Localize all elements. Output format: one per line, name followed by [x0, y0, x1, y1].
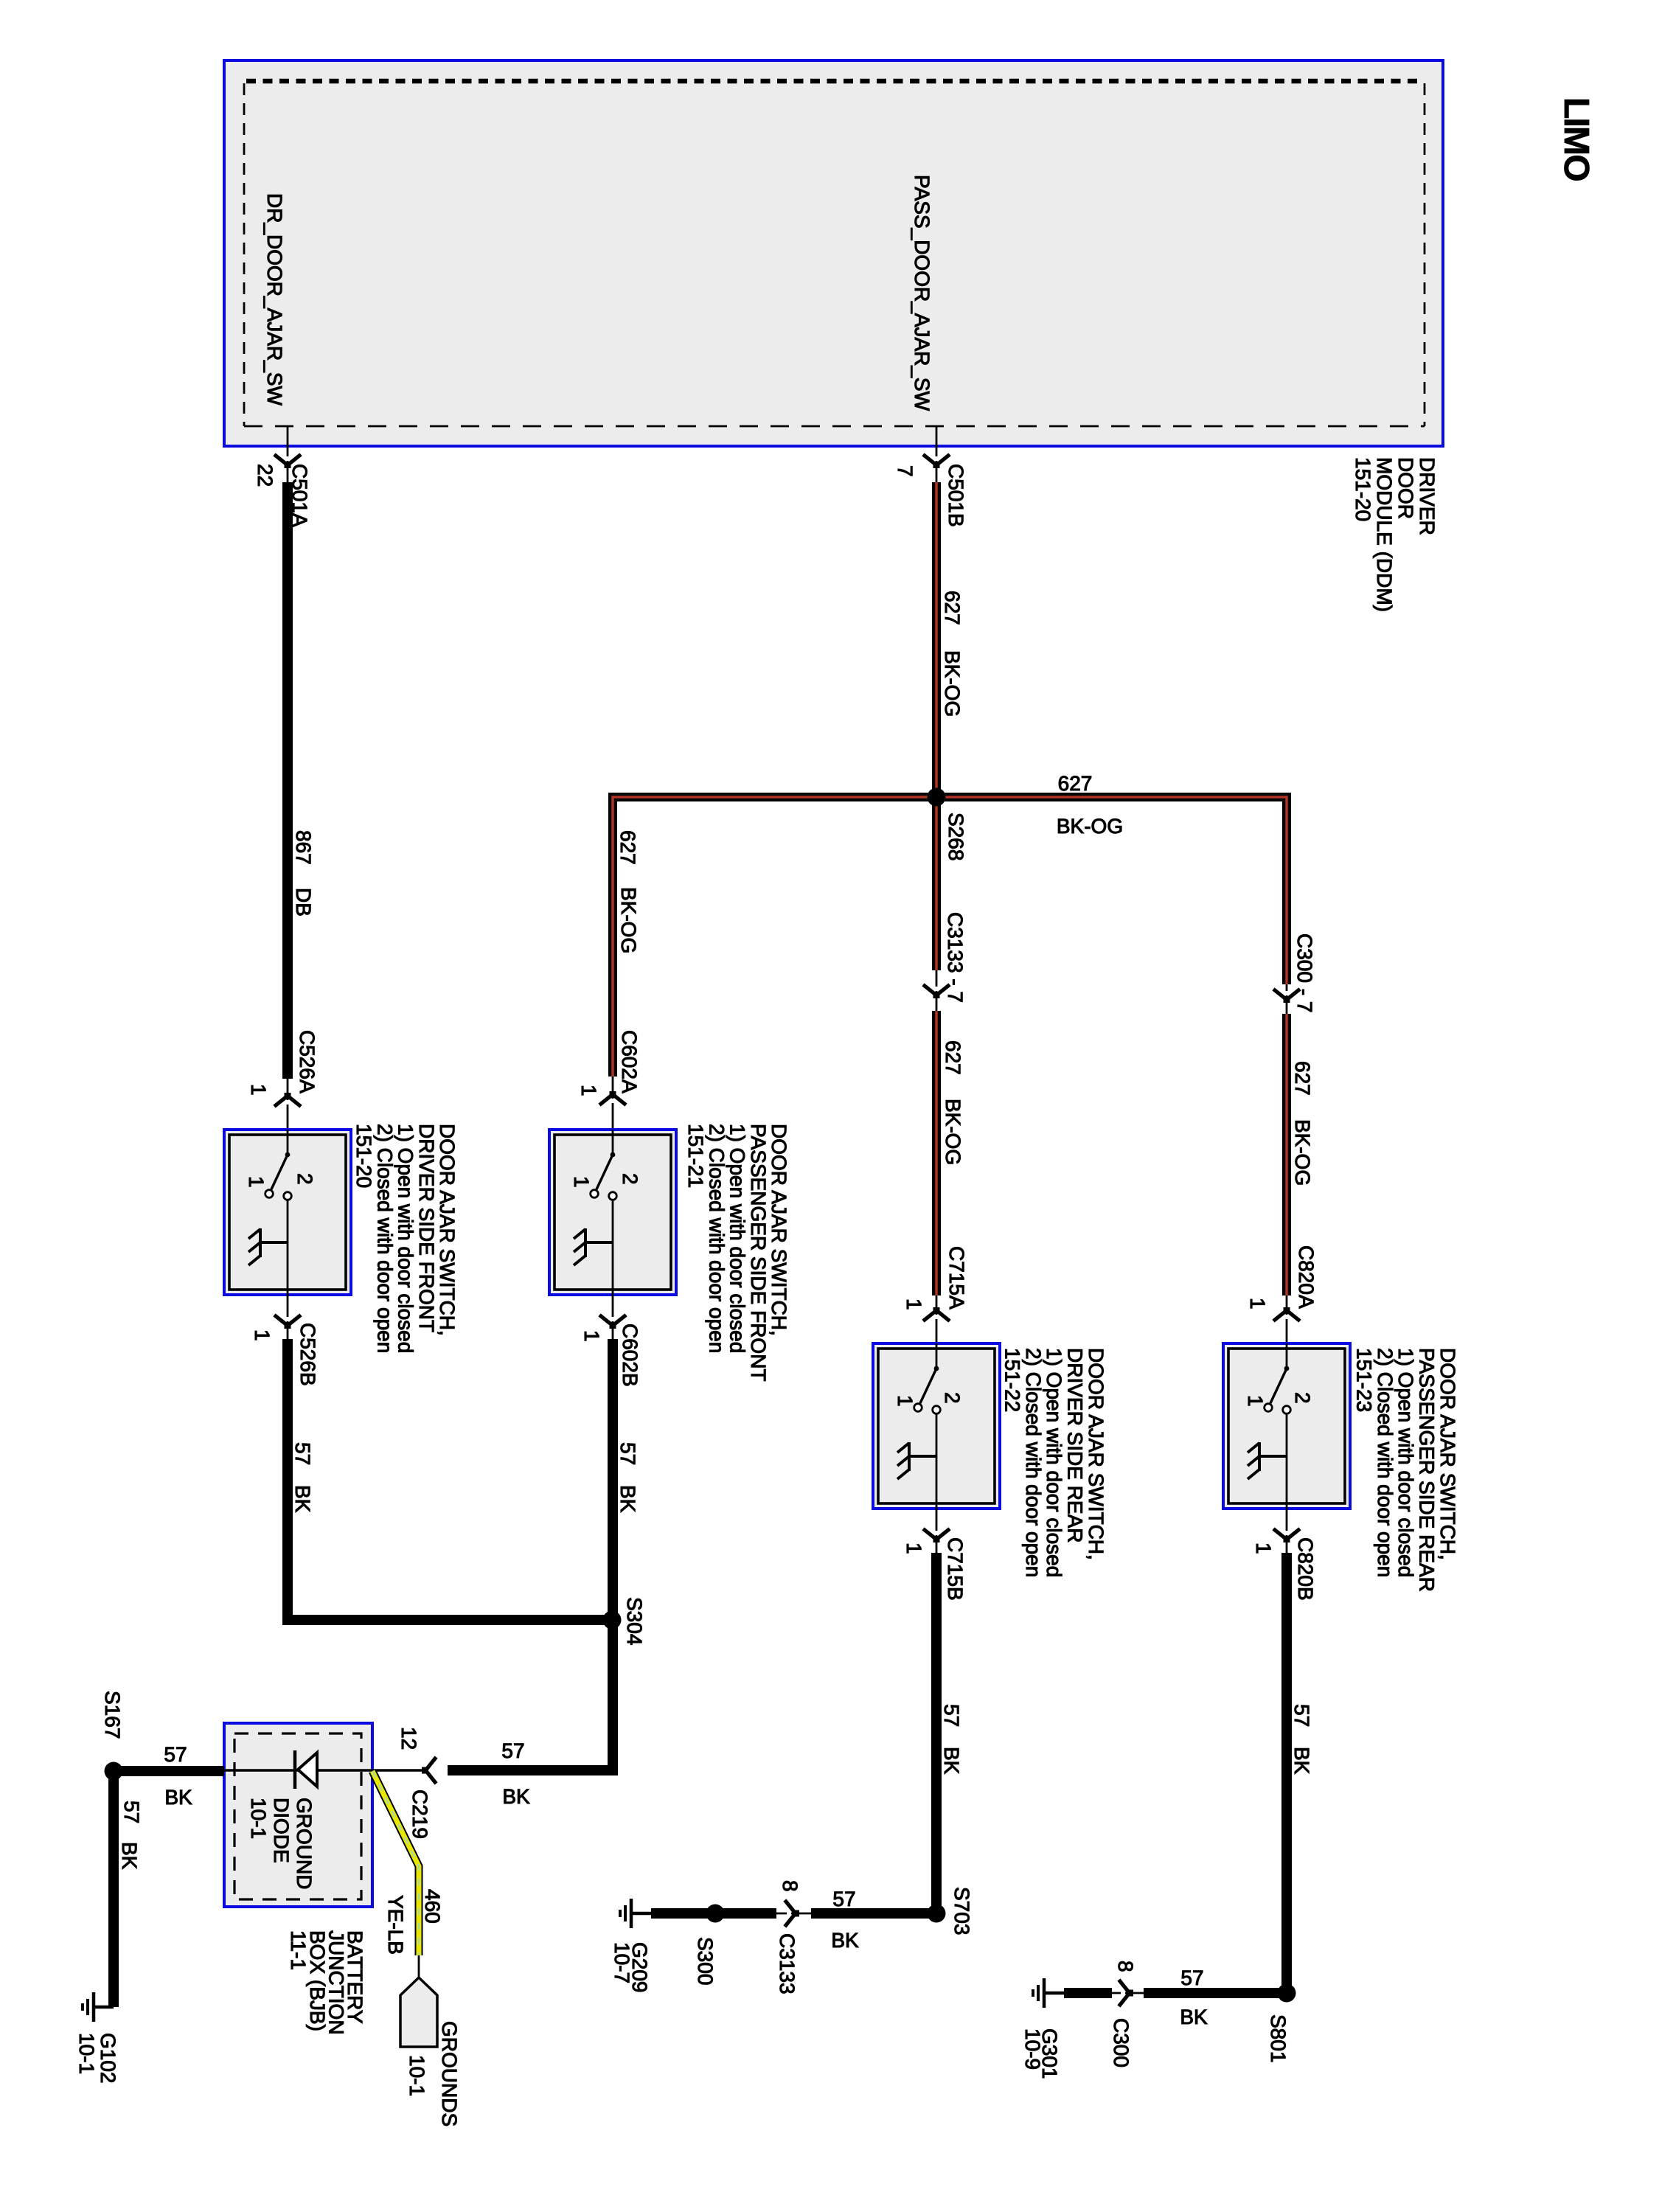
col3 lower 627 wire	[936, 970, 938, 1012]
svg-text:DOOR AJAR SWITCH,PASSENGER SID: DOOR AJAR SWITCH,PASSENGER SIDE FRONT1) …	[684, 1124, 790, 1382]
svg-text:627: 627	[942, 1040, 964, 1075]
ground diode D	[295, 1750, 317, 1789]
lead below switch 1	[287, 1295, 289, 1340]
svg-text:BK: BK	[164, 1786, 192, 1809]
wire 867 DB col1	[282, 482, 293, 1079]
switch symbol 2	[574, 1130, 616, 1295]
driver door module DDM box	[224, 60, 1443, 446]
grounds flag pentagon	[400, 1978, 437, 2047]
svg-text:2: 2	[293, 1173, 316, 1185]
svg-text:1: 1	[577, 1085, 600, 1096]
svg-text:1: 1	[1246, 1298, 1269, 1310]
svg-text:627: 627	[941, 591, 964, 625]
connector C602B	[601, 1316, 625, 1329]
connector C219	[422, 1759, 435, 1782]
svg-text:1: 1	[902, 1298, 925, 1310]
svg-text:GROUNDS: GROUNDS	[438, 2021, 461, 2126]
splice S167	[105, 1762, 123, 1781]
wire 57 BK col1 to S304	[288, 1339, 612, 1620]
switch box driver side front	[224, 1130, 351, 1295]
svg-text:BK: BK	[291, 1485, 314, 1513]
connector C501A	[276, 456, 299, 468]
svg-text:BK: BK	[1290, 1747, 1313, 1775]
svg-text:DRIVERDOORMODULE (DDM)151-20: DRIVERDOORMODULE (DDM)151-20	[1352, 457, 1439, 612]
svg-text:BK: BK	[831, 1929, 859, 1952]
svg-text:LIMO: LIMO	[1557, 97, 1596, 181]
svg-text:1: 1	[247, 1084, 270, 1096]
svg-text:S304: S304	[623, 1597, 646, 1645]
svg-text:2: 2	[619, 1173, 641, 1185]
svg-text:DB: DB	[292, 888, 315, 917]
svg-text:BK-OG: BK-OG	[1291, 1119, 1314, 1186]
connector C820A	[1275, 1307, 1298, 1320]
svg-text:S167: S167	[101, 1691, 124, 1739]
svg-text:C820A: C820A	[1295, 1245, 1318, 1309]
connector C501B	[925, 456, 948, 468]
svg-text:S703: S703	[950, 1887, 973, 1935]
svg-text:12: 12	[397, 1727, 420, 1750]
connector C602A	[601, 1091, 625, 1104]
wire 57 BK col3	[931, 1553, 942, 1913]
row: S703 to G209	[651, 1908, 776, 1919]
lead below switch 2	[612, 1295, 614, 1340]
svg-text:C219: C219	[408, 1790, 431, 1839]
svg-text:G102: G102	[97, 2033, 119, 2084]
svg-text:C602B: C602B	[619, 1324, 641, 1387]
svg-text:BK-OG: BK-OG	[941, 650, 964, 717]
svg-text:BATTERYJUNCTIONBOX (BJB)11-1: BATTERYJUNCTIONBOX (BJB)11-1	[287, 1930, 366, 2035]
svg-text:C602A: C602A	[618, 1030, 641, 1093]
svg-text:BK-OG: BK-OG	[617, 887, 640, 953]
svg-text:C300: C300	[1110, 2018, 1133, 2067]
svg-text:DOOR AJAR SWITCH,DRIVER SIDE R: DOOR AJAR SWITCH,DRIVER SIDE REAR1) Open…	[1001, 1348, 1107, 1577]
svg-text:57: 57	[120, 1801, 143, 1823]
switch symbol 4	[1248, 1343, 1290, 1509]
svg-text:57: 57	[291, 1442, 314, 1465]
svg-text:DOOR AJAR SWITCH,PASSENGER SID: DOOR AJAR SWITCH,PASSENGER SIDE REAR1) O…	[1352, 1348, 1459, 1592]
svg-text:1: 1	[1252, 1543, 1275, 1554]
wire 627 BK-OG col3 from C501B	[936, 426, 938, 484]
svg-text:8: 8	[779, 1880, 801, 1892]
svg-text:C715B: C715B	[944, 1537, 967, 1601]
splice S304	[603, 1611, 622, 1630]
svg-text:DR_DOOR_AJAR_SW: DR_DOOR_AJAR_SW	[263, 193, 286, 406]
lead to grounds flag	[418, 1955, 420, 1978]
svg-text:C820B: C820B	[1294, 1537, 1317, 1601]
splice S268	[928, 788, 946, 807]
svg-text:8: 8	[1114, 1961, 1137, 1972]
svg-text:10-1: 10-1	[75, 2033, 98, 2074]
svg-text:BK-OG: BK-OG	[942, 1099, 964, 1165]
connector C715B	[925, 1530, 948, 1543]
col4 627 wire	[1286, 984, 1288, 1016]
svg-text:BK: BK	[1180, 2006, 1208, 2028]
connector C300	[1120, 1981, 1133, 2005]
connector C715A	[925, 1307, 948, 1320]
splice S703	[928, 1905, 946, 1923]
svg-text:10-7: 10-7	[611, 1942, 633, 1983]
svg-text:BK: BK	[118, 1842, 141, 1870]
svg-text:1: 1	[1244, 1395, 1267, 1407]
switch box passenger side rear	[1223, 1343, 1350, 1509]
svg-text:C526A: C526A	[296, 1030, 319, 1093]
svg-text:57: 57	[940, 1704, 963, 1727]
svg-text:627: 627	[1291, 1061, 1314, 1096]
svg-text:22: 22	[254, 464, 276, 487]
lead to switch 2	[612, 1077, 614, 1130]
lead below switch 3	[936, 1509, 938, 1554]
svg-text:1: 1	[251, 1329, 274, 1341]
connector C526A	[276, 1093, 299, 1105]
svg-text:57: 57	[1290, 1704, 1313, 1727]
svg-text:1: 1	[245, 1176, 268, 1188]
switch box driver side rear	[873, 1343, 1000, 1509]
bus 627 horizontal with corners	[613, 797, 1287, 1077]
battery junction box BJB	[224, 1723, 372, 1907]
connector C526B	[276, 1316, 299, 1329]
svg-text:627: 627	[616, 830, 639, 865]
svg-text:BK: BK	[616, 1485, 639, 1513]
svg-text:57: 57	[1180, 1966, 1203, 1989]
ground G301	[1033, 1978, 1064, 2008]
svg-text:2: 2	[1291, 1392, 1314, 1404]
wire 57 BK S167 to BJB	[114, 1766, 224, 1776]
svg-text:DOOR AJAR SWITCH,DRIVER SIDE F: DOOR AJAR SWITCH,DRIVER SIDE FRONT1) Ope…	[352, 1124, 459, 1353]
svg-text:C300 - 7: C300 - 7	[1293, 933, 1316, 1012]
svg-text:C715A: C715A	[945, 1246, 968, 1310]
ground G102	[83, 1992, 114, 2022]
svg-text:BK: BK	[940, 1747, 963, 1775]
svg-text:460: 460	[421, 1889, 444, 1924]
diode line through BJB	[224, 1769, 428, 1771]
row: S801 to G301	[1064, 1988, 1112, 1998]
pin 22 lead	[287, 426, 289, 484]
svg-text:1: 1	[902, 1543, 925, 1554]
svg-text:2: 2	[941, 1392, 964, 1404]
ground G209	[620, 1899, 651, 1928]
svg-text:57: 57	[832, 1888, 855, 1910]
svg-text:1: 1	[894, 1395, 917, 1407]
svg-text:C3133 - 7: C3133 - 7	[944, 912, 967, 1003]
svg-text:57: 57	[616, 1442, 639, 1465]
svg-text:1: 1	[580, 1330, 603, 1342]
wire 57 BK S167 down	[108, 1771, 119, 2007]
svg-text:57: 57	[164, 1743, 187, 1766]
connector C3133-7	[925, 986, 948, 998]
connector C300-7	[1275, 990, 1298, 1003]
svg-text:867: 867	[292, 830, 315, 865]
svg-text:10-1: 10-1	[406, 2055, 428, 2096]
svg-text:10-9: 10-9	[1021, 2028, 1044, 2070]
splice S300	[706, 1905, 725, 1923]
wire 460 YE-LB	[372, 1771, 419, 1955]
lead below switch 4	[1286, 1509, 1288, 1554]
svg-text:S801: S801	[1267, 2014, 1290, 2062]
svg-text:1: 1	[570, 1176, 593, 1188]
svg-text:YE-LB: YE-LB	[384, 1895, 407, 1955]
lead to switch 1	[287, 1079, 289, 1130]
svg-text:C501B: C501B	[945, 464, 967, 527]
svg-text:BK-OG: BK-OG	[1057, 815, 1123, 838]
splice S801	[1278, 1984, 1296, 2003]
wire 57 BK col2 down through S304	[448, 1339, 613, 1770]
svg-text:57: 57	[501, 1739, 524, 1762]
connector C3133	[786, 1902, 799, 1925]
svg-text:7: 7	[894, 465, 917, 477]
switch box passenger side front	[549, 1130, 676, 1295]
switch symbol 1	[248, 1130, 291, 1295]
svg-text:S268: S268	[945, 813, 967, 860]
svg-text:PASS_DOOR_AJAR_SW: PASS_DOOR_AJAR_SW	[911, 175, 933, 411]
svg-text:BK: BK	[502, 1785, 530, 1808]
svg-text:C526B: C526B	[296, 1323, 319, 1386]
svg-text:627: 627	[1058, 772, 1093, 795]
svg-text:S300: S300	[694, 1937, 717, 1985]
wire 57 BK col4	[1281, 1553, 1292, 1993]
switch symbol 3	[897, 1343, 940, 1509]
connector C820B	[1275, 1530, 1298, 1543]
svg-text:C3133: C3133	[776, 1933, 799, 1994]
